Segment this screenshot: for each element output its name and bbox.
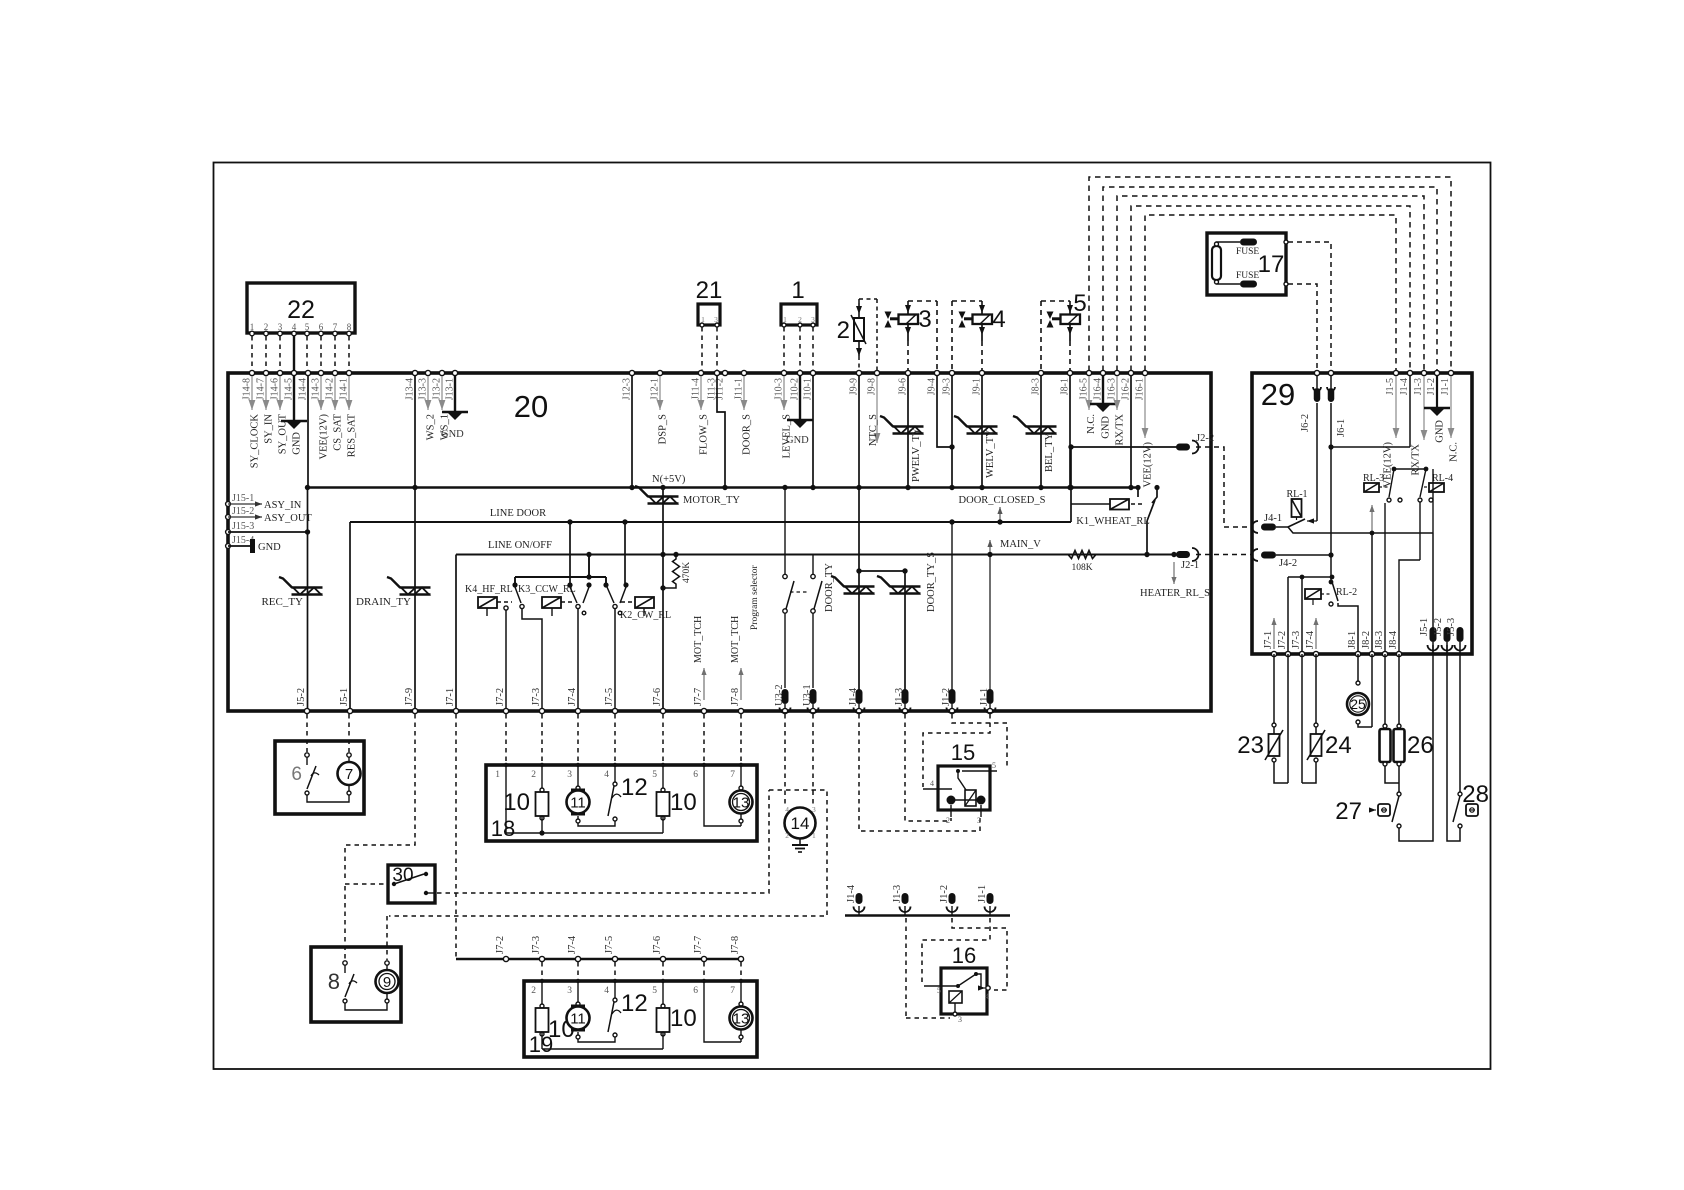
svg-text:MOTOR_TY: MOTOR_TY [683, 495, 740, 506]
svg-text:FUSE: FUSE [1236, 271, 1259, 281]
svg-text:10: 10 [503, 789, 530, 816]
gnd at J16-4 [1090, 375, 1116, 439]
svg-text:J14-7: J14-7 [256, 378, 267, 400]
LINE DOOR drops [570, 522, 625, 583]
relay RL-2 [1305, 580, 1358, 654]
wire up to bus from LINE DOOR right end [1070, 447, 1072, 522]
J1-2 column [951, 522, 953, 690]
svg-text:J1-5: J1-5 [1385, 378, 1396, 395]
J8-3 BEL column [1040, 375, 1042, 488]
relay K3_CCW_RL [518, 584, 576, 616]
svg-text:LINE DOOR: LINE DOOR [490, 508, 546, 519]
svg-text:MOT_TCH: MOT_TCH [693, 616, 704, 663]
NTC_S arrow at J9-8 [868, 376, 880, 446]
dashed harness J16 to J1 [1089, 177, 1451, 371]
svg-text:J14-6: J14-6 [270, 378, 281, 400]
svg-text:11: 11 [570, 794, 586, 811]
triac MOTOR_TY [635, 486, 740, 711]
svg-text:SY_OUT: SY_OUT [278, 413, 289, 454]
J7 secondary bus [456, 714, 744, 979]
svg-text:J15-3: J15-3 [232, 521, 254, 532]
svg-text:ASY_OUT: ASY_OUT [264, 513, 312, 524]
triac DOOR_TY_S [877, 552, 937, 690]
relay RL-4 [1424, 473, 1453, 492]
dashed 30 to 14 [437, 790, 769, 893]
svg-text:J7-4: J7-4 [567, 687, 578, 706]
svg-text:J1-4: J1-4 [1399, 378, 1410, 395]
svg-text:CS_SAT: CS_SAT [333, 413, 344, 450]
svg-text:J2-2: J2-2 [1196, 433, 1214, 444]
svg-text:J7-5: J7-5 [604, 936, 615, 954]
gnd symbol under J22 pin4 [281, 336, 307, 455]
svg-text:2: 2 [531, 770, 536, 780]
J16-2 column [1130, 375, 1132, 488]
fuse box 17 [1207, 233, 1288, 295]
svg-text:VEE(12V): VEE(12V) [1143, 442, 1154, 488]
svg-text:J12-3: J12-3 [622, 378, 633, 400]
J9-3 column [951, 375, 953, 488]
svg-text:J14-3: J14-3 [311, 378, 322, 400]
svg-text:5: 5 [652, 770, 657, 780]
J11-3 jog column [717, 375, 725, 488]
svg-text:29: 29 [1261, 377, 1295, 412]
svg-text:470K: 470K [682, 562, 692, 583]
svg-text:J14-1: J14-1 [339, 378, 350, 400]
svg-text:J10-1: J10-1 [803, 378, 814, 400]
svg-text:6: 6 [693, 986, 698, 996]
earth circle 14 [785, 805, 817, 852]
valve 5 [1041, 290, 1087, 371]
svg-text:8: 8 [328, 969, 340, 994]
valve 3 [885, 301, 938, 371]
connector 1 [781, 277, 817, 370]
svg-text:3: 3 [567, 986, 572, 996]
svg-text:6: 6 [693, 770, 698, 780]
svg-text:J7-8: J7-8 [730, 936, 741, 954]
box 6/7 thermal switch [275, 714, 364, 814]
svg-text:14: 14 [791, 814, 810, 833]
svg-text:27: 27 [1335, 798, 1362, 825]
svg-text:6: 6 [291, 764, 302, 785]
J4-1 terminal + switch [1252, 513, 1317, 533]
thermal cutout 28 [1447, 645, 1489, 841]
svg-text:J1-3: J1-3 [892, 885, 903, 903]
svg-text:J13-2: J13-2 [432, 378, 443, 400]
svg-text:J1-1: J1-1 [977, 885, 988, 903]
J7-1 column [455, 555, 457, 712]
U3 dashed drops [785, 714, 813, 806]
svg-text:7: 7 [345, 766, 353, 783]
svg-text:20: 20 [514, 389, 548, 424]
svg-text:J15-1: J15-1 [232, 493, 254, 504]
svg-text:J7-2: J7-2 [495, 688, 506, 706]
J8-1 column [1069, 375, 1071, 488]
svg-text:7: 7 [730, 986, 735, 996]
svg-text:23: 23 [1237, 732, 1264, 759]
DOOR_CLOSED_S label/arrow [959, 495, 1046, 521]
J12-3 column [631, 375, 633, 488]
svg-text:7: 7 [730, 770, 735, 780]
relay RL-1 [1286, 489, 1307, 521]
svg-text:J4-1: J4-1 [1264, 513, 1282, 524]
svg-text:J9-9: J9-9 [849, 378, 860, 395]
J9-9 column [858, 375, 860, 488]
svg-text:J5-1: J5-1 [1419, 618, 1430, 636]
HEATER_RL_S arrow [1140, 562, 1210, 599]
J14-4 / REC_TY column [307, 375, 310, 711]
gnd at J14-5 is above; gnd at J13-1 [441, 375, 468, 440]
svg-text:RX/TX: RX/TX [1115, 414, 1126, 446]
svg-text:26: 26 [1407, 732, 1434, 759]
svg-text:J7-3: J7-3 [1291, 631, 1302, 649]
svg-text:J8-1: J8-1 [1347, 631, 1358, 649]
switch output rail y533 [1288, 527, 1433, 533]
switch box 30 [388, 865, 435, 903]
triac DRAIN_TY [356, 577, 431, 608]
svg-text:J8-3: J8-3 [1031, 378, 1042, 395]
svg-text:J5-2: J5-2 [1433, 618, 1444, 636]
svg-text:17: 17 [1258, 251, 1285, 278]
J1 dashed harness to 15 [859, 714, 1007, 831]
svg-text:J9-3: J9-3 [942, 378, 953, 395]
left rail y577 [1288, 575, 1334, 654]
svg-text:J7-7: J7-7 [693, 688, 704, 706]
svg-text:J14-2: J14-2 [325, 378, 336, 400]
svg-text:J16-2: J16-2 [1121, 378, 1132, 400]
svg-text:J13-3: J13-3 [418, 378, 429, 400]
svg-text:5: 5 [992, 761, 996, 770]
svg-text:J9-4: J9-4 [927, 378, 938, 395]
svg-text:J1-1: J1-1 [1440, 378, 1451, 395]
N(+5V) power bus [307, 474, 1140, 488]
svg-text:1: 1 [250, 322, 255, 332]
svg-text:SY_CLOCK: SY_CLOCK [250, 414, 261, 469]
svg-text:J7-2: J7-2 [495, 936, 506, 954]
svg-text:J1-4: J1-4 [846, 884, 857, 903]
J5-1 column [349, 522, 351, 711]
triac DOOR_TY [824, 563, 875, 690]
svg-text:3: 3 [278, 322, 283, 332]
K switch blades [504, 587, 626, 711]
svg-text:3: 3 [567, 770, 572, 780]
box29 bottom pins [1263, 618, 1466, 657]
svg-text:RL-2: RL-2 [1336, 587, 1357, 598]
box29 top pins [1300, 370, 1460, 487]
J2-1 terminal [1176, 548, 1199, 571]
svg-text:J1-3: J1-3 [1413, 378, 1424, 395]
svg-text:J7-8: J7-8 [730, 688, 741, 706]
svg-text:J16-3: J16-3 [1107, 378, 1118, 400]
svg-text:5: 5 [652, 986, 657, 996]
relay K4_HF_RL [465, 584, 513, 616]
svg-text:3: 3 [958, 1015, 962, 1024]
svg-text:1: 1 [791, 277, 804, 304]
svg-text:ASY_IN: ASY_IN [264, 500, 302, 511]
svg-text:11: 11 [570, 1010, 586, 1027]
thermal cutout 27 [1335, 645, 1433, 841]
svg-text:4: 4 [604, 986, 609, 996]
svg-text:12: 12 [621, 990, 648, 1017]
box20 bottom pin labels [296, 684, 996, 713]
lamp box 19 [524, 979, 757, 1057]
svg-text:2: 2 [837, 317, 850, 344]
108K resistor [1068, 551, 1096, 574]
svg-text:1: 1 [812, 831, 816, 840]
dot J2-2 [1068, 444, 1073, 449]
relay box 16 [924, 943, 990, 1024]
svg-text:J7-6: J7-6 [652, 688, 663, 706]
svg-text:J13-4: J13-4 [405, 378, 416, 400]
svg-text:22: 22 [287, 296, 315, 324]
svg-text:J11-1: J11-1 [734, 378, 745, 400]
MAIN_V down column J1-1 [989, 555, 991, 691]
svg-text:J7-3: J7-3 [531, 688, 542, 706]
svg-text:J7-9: J7-9 [404, 688, 415, 706]
svg-text:N.C.: N.C. [1449, 442, 1460, 462]
relay K2_CW_RL [620, 597, 671, 621]
dashed rect around 14 [387, 790, 827, 960]
svg-text:J8-3: J8-3 [1374, 631, 1385, 649]
svg-text:J14-4: J14-4 [298, 378, 309, 400]
svg-text:MAIN_V: MAIN_V [1000, 539, 1041, 550]
svg-text:28: 28 [1462, 781, 1489, 808]
svg-text:VEE(12V): VEE(12V) [319, 414, 330, 460]
program selector switches [750, 488, 822, 689]
heater 26 [1380, 654, 1434, 792]
svg-text:REC_TY: REC_TY [261, 596, 303, 608]
svg-text:RX/TX: RX/TX [1411, 444, 1422, 476]
J5 columns [1433, 533, 1447, 628]
svg-text:4: 4 [785, 805, 789, 814]
svg-text:8: 8 [347, 322, 352, 332]
relay box 15 [923, 740, 997, 825]
svg-text:N.C.: N.C. [1086, 414, 1097, 434]
svg-text:J2-1: J2-1 [1181, 560, 1199, 571]
svg-text:3: 3 [918, 306, 931, 333]
connector 21 [696, 277, 723, 370]
svg-text:5: 5 [305, 322, 310, 332]
svg-text:J9-6: J9-6 [898, 378, 909, 395]
svg-text:K3_CCW_RL: K3_CCW_RL [518, 584, 576, 595]
svg-text:J8-4: J8-4 [1388, 630, 1399, 649]
valve 4 [952, 301, 1006, 371]
svg-text:J7-4: J7-4 [567, 935, 578, 954]
J15 pins [226, 493, 313, 553]
svg-text:J11-4: J11-4 [691, 378, 702, 400]
svg-text:4: 4 [992, 306, 1005, 333]
relay K1_WHEAT_RL [1071, 485, 1160, 555]
svg-text:J7-3: J7-3 [531, 936, 542, 954]
resistor 470K [663, 555, 692, 589]
svg-text:J4-2: J4-2 [1279, 558, 1297, 569]
RX/TX at J16-3 [1114, 376, 1126, 446]
svg-text:J12-1: J12-1 [650, 378, 661, 400]
J2-2 terminal + wire [1071, 433, 1214, 454]
svg-text:1: 1 [495, 770, 500, 780]
svg-text:DOOR_TY: DOOR_TY [824, 563, 835, 612]
RL3/RL4 contact bridge [1387, 467, 1433, 533]
svg-text:4: 4 [604, 770, 609, 780]
svg-text:16: 16 [952, 943, 976, 968]
svg-text:WELV_TY: WELV_TY [985, 429, 996, 478]
box20 top pin labels [242, 370, 1148, 468]
svg-text:HEATER_RL_S: HEATER_RL_S [1140, 588, 1210, 599]
svg-text:DOOR_S: DOOR_S [742, 414, 753, 455]
svg-text:J8-1: J8-1 [1060, 378, 1071, 395]
svg-text:DOOR_CLOSED_S: DOOR_CLOSED_S [959, 495, 1046, 506]
svg-text:J8-2: J8-2 [1361, 631, 1372, 649]
J10-1 column [812, 375, 814, 488]
svg-text:K4_HF_RL: K4_HF_RL [465, 584, 513, 595]
svg-text:PWELV_TY: PWELV_TY [911, 427, 922, 482]
svg-text:DOOR_TY_S: DOOR_TY_S [926, 552, 937, 612]
svg-text:J9-1: J9-1 [972, 378, 983, 395]
thermistor 23 [1237, 654, 1288, 783]
svg-text:J16-5: J16-5 [1079, 378, 1090, 400]
IC box U29 [1252, 373, 1472, 654]
svg-text:J16-1: J16-1 [1135, 378, 1146, 400]
MAIN_V label/arrow [987, 539, 1041, 553]
svg-text:J7-4: J7-4 [1305, 630, 1316, 649]
svg-text:FUSE: FUSE [1236, 247, 1259, 257]
svg-text:J7-7: J7-7 [693, 936, 704, 954]
lamp box 18 [486, 763, 757, 841]
svg-text:GND: GND [786, 435, 809, 446]
svg-text:108K: 108K [1071, 563, 1092, 573]
svg-text:10: 10 [670, 1005, 697, 1032]
box16 harness [906, 918, 1007, 1018]
svg-text:J10-3: J10-3 [774, 378, 785, 400]
svg-text:5: 5 [937, 986, 941, 995]
junction dots [305, 444, 1177, 590]
J7-9 dashed harness [345, 714, 415, 960]
svg-text:K2_CW_RL: K2_CW_RL [620, 610, 671, 621]
svg-text:BEL_TY: BEL_TY [1044, 433, 1055, 472]
svg-text:7: 7 [333, 322, 338, 332]
tacho 25 [1347, 654, 1372, 727]
svg-text:18: 18 [491, 816, 515, 841]
svg-text:J9-8: J9-8 [867, 378, 878, 395]
svg-text:Program selector: Program selector [750, 565, 760, 630]
svg-text:5: 5 [1073, 290, 1086, 317]
svg-text:RES_SAT: RES_SAT [347, 413, 358, 457]
gnd at J10-2 [786, 375, 813, 446]
J8 columns [1370, 502, 1420, 654]
svg-text:2: 2 [264, 322, 269, 332]
svg-text:NTC_S: NTC_S [868, 414, 879, 446]
IC box U20 [228, 373, 1211, 711]
J9-4 jog [937, 375, 952, 447]
triac WELV_TY [954, 416, 998, 478]
svg-text:J6-1: J6-1 [1336, 419, 1347, 437]
border frame [214, 163, 1491, 1070]
thermistor 24 [1302, 654, 1352, 783]
svg-text:GND: GND [1435, 420, 1446, 443]
J9-1 WELV column [981, 375, 983, 488]
relay RL-3 [1363, 473, 1390, 492]
fuse box to box29 dashed wires [1288, 242, 1331, 371]
svg-text:J14-8: J14-8 [242, 378, 253, 400]
svg-text:DSP_S: DSP_S [658, 414, 669, 445]
K cluster bracket [512, 555, 628, 588]
svg-text:6: 6 [319, 322, 324, 332]
svg-text:J7-5: J7-5 [604, 688, 615, 706]
svg-text:2: 2 [946, 816, 950, 825]
svg-text:J7-1: J7-1 [445, 688, 456, 706]
svg-text:J1-2: J1-2 [939, 885, 950, 903]
svg-text:GND: GND [1101, 416, 1112, 439]
J4-2 terminal + wire [1252, 549, 1331, 569]
svg-text:K1_WHEAT_RL: K1_WHEAT_RL [1076, 516, 1150, 527]
svg-text:GND: GND [441, 429, 464, 440]
svg-text:J7-2: J7-2 [1277, 631, 1288, 649]
svg-text:WS_2: WS_2 [426, 414, 437, 440]
LINE DOOR wire [350, 508, 1071, 522]
svg-text:GND: GND [292, 432, 303, 455]
svg-text:3: 3 [812, 805, 816, 814]
svg-text:N(+5V): N(+5V) [652, 474, 686, 485]
VEE(12V) arrow at J16-1 [1142, 376, 1154, 488]
svg-text:DRAIN_TY: DRAIN_TY [356, 596, 411, 608]
svg-text:J5-1: J5-1 [339, 688, 350, 706]
triac BEL_TY [1013, 416, 1057, 472]
door triac bridge [859, 488, 905, 572]
J9-6 PWELV column [907, 375, 909, 488]
svg-text:J6-2: J6-2 [1300, 414, 1311, 432]
svg-text:4: 4 [292, 322, 297, 332]
svg-text:10: 10 [670, 789, 697, 816]
svg-text:LINE ON/OFF: LINE ON/OFF [488, 540, 552, 551]
triac REC_TY [261, 577, 322, 608]
svg-text:2: 2 [531, 986, 536, 996]
svg-text:MOT_TCH: MOT_TCH [730, 616, 741, 663]
triac PWELV_TY [880, 416, 924, 482]
svg-text:21: 21 [696, 277, 723, 304]
MOT_TCH arrows J7-7 J7-8 [693, 616, 707, 700]
dashed J2 to J4 links [1196, 447, 1252, 555]
N.C. at J16-5 [1086, 376, 1097, 434]
J1 secondary bus [845, 884, 1010, 915]
svg-text:4: 4 [930, 779, 934, 788]
svg-text:J7-1: J7-1 [1263, 631, 1274, 649]
svg-text:J5-2: J5-2 [296, 688, 307, 706]
box18 harness [506, 714, 741, 764]
svg-text:J7-6: J7-6 [652, 936, 663, 954]
svg-text:J1-2: J1-2 [1426, 378, 1437, 395]
svg-text:4: 4 [985, 992, 989, 1001]
svg-text:12: 12 [621, 774, 648, 801]
svg-text:15: 15 [951, 740, 975, 765]
svg-text:J14-5: J14-5 [284, 378, 295, 400]
svg-text:GND: GND [258, 542, 281, 553]
box 8/9 thermal switch [311, 947, 401, 1022]
svg-text:SY_IN: SY_IN [264, 414, 275, 444]
connector J22 [247, 283, 355, 370]
sensor 2 (NTC) [837, 299, 877, 371]
svg-text:2: 2 [785, 831, 789, 840]
J13-4 / DRAIN_TY column [414, 375, 416, 711]
arrow up at J8-2 [1369, 505, 1374, 533]
svg-text:FLOW_S: FLOW_S [699, 414, 710, 455]
svg-text:24: 24 [1325, 732, 1352, 759]
svg-text:J5-3: J5-3 [1446, 618, 1457, 636]
svg-text:3: 3 [977, 816, 981, 825]
LINE ON/OFF + MAIN_V wire [456, 540, 1183, 555]
svg-text:J15-2: J15-2 [232, 506, 254, 517]
